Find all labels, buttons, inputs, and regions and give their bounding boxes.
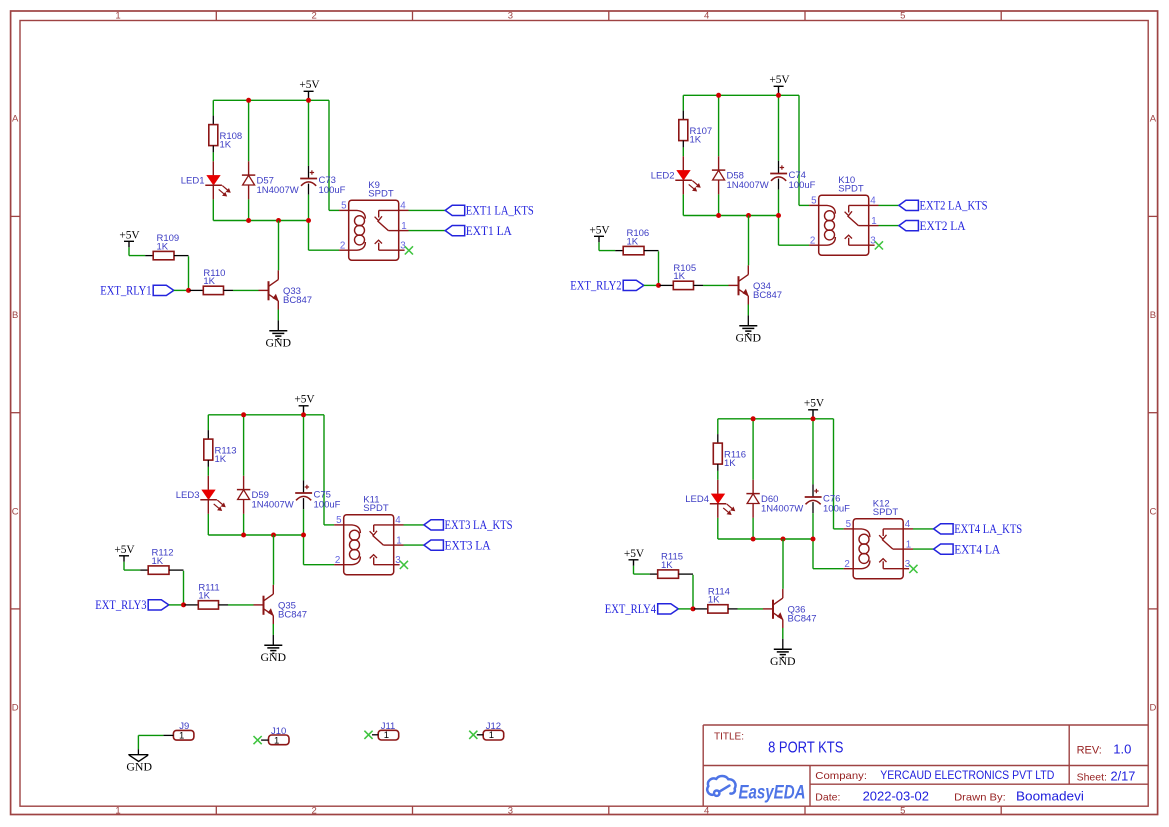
pin 1 of J10	[261, 739, 268, 741]
svg-text:D: D	[12, 703, 19, 714]
svg-text:1K: 1K	[690, 134, 702, 145]
svg-text:5: 5	[900, 11, 905, 22]
svg-text:1: 1	[274, 736, 279, 747]
svg-text:LED2: LED2	[651, 170, 675, 181]
svg-text:1K: 1K	[627, 236, 639, 247]
wire relay pin 1 to port EXT3 LA	[404, 544, 424, 546]
wire relay pin 1 to port EXT4 LA	[913, 548, 934, 550]
svg-text:1: 1	[396, 536, 401, 547]
svg-text:3: 3	[508, 806, 513, 817]
pin 1 of J9	[163, 734, 173, 736]
svg-text:1K: 1K	[198, 591, 210, 602]
wire diode to bottom bus	[718, 194, 720, 215]
junction	[271, 533, 276, 538]
no-connect X on pin 3	[875, 241, 883, 249]
svg-text:A: A	[12, 114, 19, 125]
junction	[776, 93, 781, 98]
resistor R112 1K	[140, 548, 183, 575]
wire +5V to resistor	[129, 247, 145, 255]
diode D57 1N4007W	[242, 161, 299, 199]
relay switch contact	[370, 525, 394, 565]
title block frame	[703, 725, 1148, 806]
svg-text:LED1: LED1	[181, 175, 205, 186]
svg-text:2: 2	[312, 806, 317, 817]
wire capacitor to bottom bus	[308, 195, 310, 221]
svg-text:EXT1 LA_KTS: EXT1 LA_KTS	[466, 204, 534, 218]
wire collector	[782, 539, 784, 589]
wire bus to relay pin 2	[779, 216, 810, 246]
relay coil	[349, 210, 366, 250]
svg-text:1K: 1K	[673, 271, 685, 282]
svg-text:EXT_RLY2: EXT_RLY2	[570, 279, 621, 293]
power +5V (base drive R106)	[589, 224, 610, 242]
pin 1	[869, 216, 879, 227]
svg-text:BC847: BC847	[278, 610, 307, 621]
junction	[716, 213, 721, 218]
pin 2	[334, 555, 344, 566]
junction	[301, 412, 306, 417]
wire +5V to resistor	[124, 562, 140, 570]
svg-text:5: 5	[341, 201, 347, 212]
svg-text:C: C	[12, 506, 19, 517]
svg-text:Boomadevi: Boomadevi	[1016, 790, 1084, 804]
power +5V (K10 block)	[769, 74, 790, 95]
LED LED4	[685, 480, 734, 518]
wire LED to bottom bus	[717, 518, 719, 539]
wire bottom bus	[213, 220, 308, 222]
relay switch contact	[375, 210, 399, 250]
svg-text:4: 4	[400, 201, 406, 212]
svg-text:BC847: BC847	[283, 295, 312, 306]
pin 3	[399, 241, 407, 252]
junction	[751, 416, 756, 421]
port EXT1 LA	[445, 224, 512, 238]
LED LED1	[181, 161, 230, 199]
junction	[276, 218, 281, 223]
relay K10 SPDT	[819, 175, 869, 255]
svg-text:1N4007W: 1N4007W	[761, 504, 803, 515]
svg-text:1N4007W: 1N4007W	[727, 180, 769, 191]
svg-text:1K: 1K	[220, 139, 232, 150]
junction	[746, 213, 751, 218]
wire diode branch upper	[718, 95, 720, 156]
pin 3	[394, 555, 402, 566]
connector J12	[483, 721, 504, 741]
svg-text:1K: 1K	[157, 241, 169, 252]
svg-text:2: 2	[340, 241, 345, 252]
svg-text:1: 1	[906, 540, 911, 551]
wire bottom bus	[718, 538, 813, 540]
svg-text:EXT3 LA: EXT3 LA	[445, 538, 491, 552]
wire bus to relay pin 2	[813, 539, 844, 569]
pin 5	[844, 519, 854, 530]
svg-text:1: 1	[401, 221, 406, 232]
pin 4	[394, 515, 404, 526]
svg-text:GND: GND	[770, 654, 796, 668]
svg-text:EXT2 LA: EXT2 LA	[920, 219, 966, 233]
connector J9	[173, 721, 194, 742]
svg-text:Drawn By:: Drawn By:	[954, 791, 1006, 803]
ground	[736, 326, 762, 345]
wire port to node	[644, 284, 660, 286]
svg-text:4: 4	[704, 806, 709, 817]
svg-text:YERCAUD ELECTRONICS PVT LTD: YERCAUD ELECTRONICS PVT LTD	[880, 770, 1054, 782]
junction	[751, 537, 756, 542]
svg-text:EXT_RLY3: EXT_RLY3	[95, 598, 146, 612]
pin 5	[809, 196, 819, 207]
resistor R114 1K	[694, 586, 738, 613]
svg-text:2: 2	[335, 555, 340, 566]
wire to transistor base	[703, 284, 729, 286]
svg-text:100uF: 100uF	[789, 180, 816, 191]
svg-text:EXT2 LA_KTS: EXT2 LA_KTS	[920, 199, 988, 213]
svg-text:SPDT: SPDT	[363, 503, 389, 514]
wire emitter to ground	[272, 624, 274, 645]
port EXT_RLY2	[570, 279, 644, 293]
svg-text:J10: J10	[271, 726, 286, 737]
wire capacitor to bottom bus	[812, 513, 814, 539]
svg-text:EXT_RLY1: EXT_RLY1	[100, 284, 151, 298]
junction input node	[181, 602, 186, 607]
port EXT4 LA	[934, 542, 1001, 556]
svg-text:J9: J9	[179, 721, 189, 732]
pin 4	[869, 196, 879, 207]
svg-text:4: 4	[704, 11, 709, 22]
wire resistor to LED	[207, 467, 209, 476]
port EXT_RLY4	[605, 602, 679, 616]
resistor R116 1K	[713, 443, 746, 471]
junction	[716, 93, 721, 98]
junction	[306, 218, 311, 223]
pin 2	[339, 241, 349, 252]
svg-text:EXT4 LA_KTS: EXT4 LA_KTS	[954, 522, 1022, 536]
junction input node	[186, 288, 191, 293]
svg-text:+5V: +5V	[114, 544, 135, 556]
transistor Q34 BC847	[729, 265, 783, 304]
resistor R111 1K	[185, 582, 229, 609]
junction	[241, 533, 246, 538]
svg-text:2: 2	[312, 11, 317, 22]
svg-text:C: C	[1149, 506, 1156, 517]
svg-text:EXT4 LA: EXT4 LA	[954, 542, 1000, 556]
wire emitter to ground	[277, 310, 279, 331]
svg-text:+5V: +5V	[589, 224, 610, 236]
port EXT2 LA_KTS	[899, 199, 988, 213]
junction	[811, 537, 816, 542]
wire top +5V bus	[208, 414, 324, 416]
relay coil	[819, 205, 836, 245]
wire top +5V bus	[213, 99, 329, 101]
wire collector	[273, 535, 275, 585]
capacitor C74 100uF	[770, 161, 815, 191]
svg-text:SPDT: SPDT	[838, 184, 864, 195]
svg-text:BC847: BC847	[788, 614, 817, 625]
capacitor C73 100uF	[300, 166, 345, 196]
relay switch contact	[845, 205, 869, 245]
wire bus to relay pin 2	[309, 221, 340, 251]
junction	[301, 533, 306, 538]
wire port to node	[169, 604, 185, 606]
wire capacitor branch upper	[778, 95, 780, 161]
svg-text:Sheet:: Sheet:	[1077, 771, 1107, 783]
wire to transistor base	[233, 289, 259, 291]
junction	[241, 412, 246, 417]
wire resistor to LED	[717, 471, 719, 480]
svg-text:GND: GND	[736, 331, 762, 345]
wire bottom bus	[683, 215, 778, 217]
port EXT1 LA_KTS	[445, 204, 534, 218]
transistor Q36 BC847	[763, 589, 817, 628]
svg-text:5: 5	[336, 515, 342, 526]
wire capacitor to bottom bus	[303, 509, 305, 535]
power +5V (base drive R115)	[624, 548, 645, 566]
EasyEDA logo	[707, 776, 805, 803]
svg-text:1K: 1K	[724, 458, 736, 469]
svg-text:Company:: Company:	[815, 770, 867, 782]
svg-text:1K: 1K	[215, 454, 227, 465]
diode D60 1N4007W	[746, 480, 803, 518]
wire capacitor to bottom bus	[778, 190, 780, 216]
svg-text:J11: J11	[381, 721, 396, 732]
resistor R106 1K	[615, 228, 658, 255]
junction	[811, 416, 816, 421]
capacitor C76 100uF	[805, 484, 850, 514]
svg-text:+5V: +5V	[624, 548, 645, 560]
wire resistor to input node	[692, 575, 694, 609]
svg-text:1: 1	[871, 216, 876, 227]
wire left branch down to resistor	[682, 95, 684, 119]
svg-text:Date:: Date:	[815, 791, 840, 803]
port EXT_RLY3	[95, 598, 169, 612]
svg-text:+5V: +5V	[804, 397, 825, 409]
resistor R115 1K	[650, 552, 693, 579]
junction	[781, 537, 786, 542]
wire relay pin 1 to port EXT2 LA	[879, 225, 899, 227]
relay K9 SPDT	[349, 180, 399, 260]
port EXT_RLY1	[100, 284, 174, 298]
svg-text:1K: 1K	[708, 595, 720, 606]
pin 1 of J12	[477, 734, 483, 736]
svg-text:GND: GND	[126, 759, 152, 773]
svg-text:1K: 1K	[661, 560, 673, 571]
transistor Q35 BC847	[254, 585, 308, 624]
junction	[776, 213, 781, 218]
svg-text:+5V: +5V	[299, 79, 320, 91]
svg-text:1: 1	[179, 731, 184, 742]
resistor R105 1K	[660, 263, 704, 290]
svg-text:GND: GND	[266, 336, 292, 350]
diode D58 1N4007W	[712, 156, 769, 194]
pin 2	[809, 236, 819, 247]
svg-text:SPDT: SPDT	[368, 189, 394, 200]
diode D59 1N4007W	[237, 476, 294, 514]
svg-text:EXT3 LA_KTS: EXT3 LA_KTS	[445, 518, 513, 532]
svg-text:1: 1	[115, 806, 120, 817]
wire to transistor base	[738, 608, 764, 610]
no-connect X on J10	[254, 736, 262, 744]
relay K12 SPDT	[853, 499, 903, 579]
pin 5	[339, 201, 349, 212]
wire J9 to ground	[138, 735, 163, 749]
wire diode to bottom bus	[243, 514, 245, 535]
junction input node	[691, 606, 696, 611]
resistor R109 1K	[145, 233, 188, 260]
svg-text:1K: 1K	[152, 556, 164, 567]
svg-text:1K: 1K	[203, 276, 215, 287]
svg-text:D: D	[1149, 703, 1156, 714]
svg-text:4: 4	[905, 519, 911, 530]
no-connect X on J11	[364, 731, 372, 739]
power +5V (base drive R109)	[119, 229, 140, 247]
wire +5V to resistor	[634, 566, 650, 574]
no-connect X on pin 3	[405, 246, 413, 254]
wire relay pin 4 to port EXT1 LA_KTS	[409, 209, 446, 211]
port EXT2 LA	[899, 219, 966, 233]
svg-text:5: 5	[846, 519, 852, 530]
ground	[266, 331, 292, 350]
port EXT3 LA_KTS	[424, 518, 513, 532]
wire resistor to LED	[682, 147, 684, 156]
svg-text:2: 2	[810, 236, 815, 247]
wire collector	[278, 221, 280, 271]
wire LED to bottom bus	[207, 514, 209, 535]
wire relay pin 4 to port EXT2 LA_KTS	[879, 204, 899, 206]
wire capacitor branch upper	[812, 419, 814, 485]
ground (earth) for J9	[126, 749, 152, 773]
pin 1	[394, 536, 404, 547]
svg-text:3: 3	[508, 11, 513, 22]
no-connect X on J12	[469, 731, 477, 739]
wire relay pin 4 to port EXT3 LA_KTS	[404, 524, 424, 526]
wire relay pin 1 to port EXT1 LA	[409, 230, 446, 232]
svg-text:LED4: LED4	[685, 494, 709, 505]
svg-text:4: 4	[395, 515, 401, 526]
resistor R108 1K	[209, 125, 242, 153]
wire resistor to input node	[658, 251, 660, 285]
svg-text:EasyEDA: EasyEDA	[739, 782, 806, 803]
pin 3	[903, 559, 911, 570]
svg-text:5: 5	[900, 806, 905, 817]
wire left branch down to resistor	[207, 415, 209, 439]
wire resistor to LED	[212, 152, 214, 161]
wire collector	[748, 216, 750, 266]
LED LED2	[651, 156, 700, 194]
svg-text:EXT1 LA: EXT1 LA	[466, 224, 512, 238]
wire diode to bottom bus	[752, 518, 754, 539]
svg-text:SPDT: SPDT	[873, 507, 899, 518]
capacitor C75 100uF	[295, 480, 340, 510]
svg-text:1.0: 1.0	[1113, 742, 1131, 757]
svg-text:J12: J12	[486, 721, 501, 732]
svg-text:1N4007W: 1N4007W	[257, 185, 299, 196]
wire top +5V bus	[718, 418, 834, 420]
svg-text:100uF: 100uF	[319, 185, 346, 196]
port EXT3 LA	[424, 538, 491, 552]
pin 1	[903, 540, 913, 551]
connector J11	[378, 721, 399, 741]
wire +5V to resistor	[599, 242, 615, 250]
pin 2	[844, 559, 854, 570]
wire diode to bottom bus	[248, 199, 250, 220]
svg-text:LED3: LED3	[176, 490, 200, 501]
relay coil	[344, 525, 361, 565]
no-connect X on pin 3	[909, 565, 917, 573]
transistor Q33 BC847	[259, 270, 313, 309]
svg-text:REV:: REV:	[1077, 745, 1102, 757]
svg-text:TITLE:: TITLE:	[714, 732, 744, 743]
svg-text:8 PORT KTS: 8 PORT KTS	[768, 740, 843, 757]
svg-text:A: A	[1150, 114, 1157, 125]
wire resistor to input node	[188, 256, 190, 290]
ground	[261, 645, 287, 664]
wire bus to relay pin 2	[304, 535, 335, 565]
resistor R113 1K	[204, 439, 237, 467]
power +5V (K11 block)	[294, 393, 315, 414]
connector J10	[269, 726, 290, 747]
junction input node	[656, 283, 661, 288]
wire LED to bottom bus	[682, 194, 684, 215]
wire diode branch upper	[752, 419, 754, 480]
svg-text:100uF: 100uF	[823, 503, 850, 514]
pin 1 of J11	[372, 734, 378, 736]
svg-text:GND: GND	[261, 650, 287, 664]
wire emitter to ground	[747, 305, 749, 326]
relay switch contact	[879, 529, 903, 569]
svg-text:2/17: 2/17	[1111, 769, 1136, 784]
wire left branch down to resistor	[212, 100, 214, 124]
svg-text:2022-03-02: 2022-03-02	[863, 789, 929, 803]
svg-text:B: B	[12, 310, 18, 321]
svg-text:+5V: +5V	[769, 74, 790, 86]
wire right branch to relay pin 5	[329, 100, 339, 210]
pin 4	[399, 201, 409, 212]
svg-text:+5V: +5V	[119, 229, 140, 241]
port EXT4 LA_KTS	[934, 522, 1023, 536]
wire right branch to relay pin 5	[799, 95, 809, 205]
wire bottom bus	[208, 534, 303, 536]
wire right branch to relay pin 5	[834, 419, 844, 529]
junction	[306, 98, 311, 103]
svg-text:4: 4	[870, 196, 876, 207]
wire diode branch upper	[248, 100, 250, 161]
svg-text:2: 2	[844, 559, 849, 570]
svg-text:B: B	[1150, 310, 1156, 321]
wire diode branch upper	[243, 415, 245, 476]
svg-text:1N4007W: 1N4007W	[252, 500, 294, 511]
svg-text:EXT_RLY4: EXT_RLY4	[605, 602, 656, 616]
no-connect X on pin 3	[400, 561, 408, 569]
ground	[770, 649, 796, 668]
wire right branch to relay pin 5	[324, 415, 334, 525]
wire port to node	[678, 608, 694, 610]
wire capacitor branch upper	[308, 100, 310, 166]
resistor R107 1K	[679, 120, 712, 148]
svg-text:100uF: 100uF	[314, 499, 341, 510]
svg-text:BC847: BC847	[753, 290, 782, 301]
wire capacitor branch upper	[303, 415, 305, 481]
svg-text:+5V: +5V	[294, 393, 315, 405]
pin 5	[334, 515, 344, 526]
wire resistor to input node	[183, 571, 185, 605]
wire port to node	[174, 289, 190, 291]
wire relay pin 4 to port EXT4 LA_KTS	[913, 528, 934, 530]
power +5V (base drive R112)	[114, 544, 135, 562]
resistor R110 1K	[190, 268, 234, 295]
pin 4	[903, 519, 913, 530]
relay coil	[853, 529, 870, 569]
pin 1	[399, 221, 409, 232]
wire left branch down to resistor	[717, 419, 719, 443]
